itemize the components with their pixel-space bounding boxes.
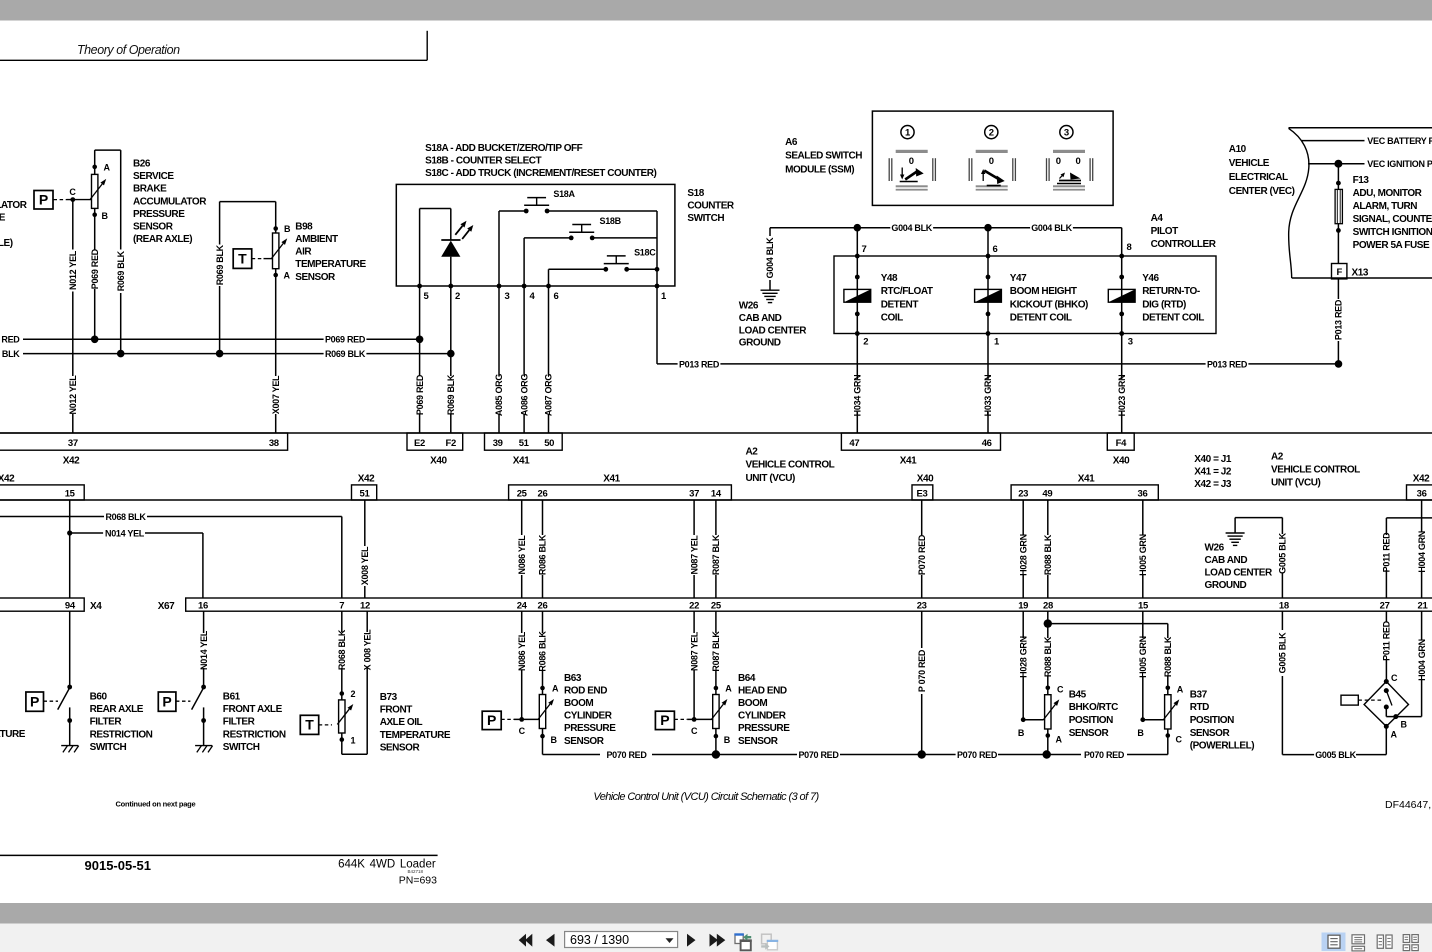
svg-text:N086 YEL: N086 YEL: [517, 631, 527, 671]
svg-text:R069 BLK: R069 BLK: [215, 244, 225, 285]
svg-text:9 BLK: 9 BLK: [0, 349, 20, 359]
svg-text:GROUND: GROUND: [739, 338, 781, 349]
svg-text:T: T: [305, 717, 314, 733]
svg-text:S18B: S18B: [600, 216, 622, 226]
svg-text:27: 27: [1380, 600, 1390, 611]
svg-text:SEALED SWITCH: SEALED SWITCH: [785, 151, 862, 162]
svg-text:S18A - ADD BUCKET/ZERO/TIP OFF: S18A - ADD BUCKET/ZERO/TIP OFF: [425, 143, 583, 154]
svg-text:19: 19: [1018, 600, 1028, 611]
svg-text:N087 YEL: N087 YEL: [689, 631, 699, 671]
svg-text:A2: A2: [1271, 452, 1284, 463]
svg-text:X41: X41: [900, 456, 917, 467]
svg-text:R069 BLK: R069 BLK: [446, 374, 456, 415]
svg-text:H005 GRN: H005 GRN: [1138, 534, 1148, 576]
svg-text:36: 36: [1417, 488, 1427, 499]
svg-text:DF44647,: DF44647,: [1385, 799, 1431, 811]
svg-text:RESTRICTION: RESTRICTION: [223, 729, 286, 740]
svg-text:CONTROLLER: CONTROLLER: [1151, 239, 1217, 250]
svg-text:F2: F2: [446, 438, 457, 449]
svg-text:15: 15: [65, 488, 76, 499]
svg-text:B63: B63: [564, 673, 582, 684]
svg-text:TEMPERATURE: TEMPERATURE: [295, 259, 366, 270]
svg-text:B: B: [551, 735, 558, 745]
svg-text:S18: S18: [687, 188, 704, 199]
svg-text:S18B - COUNTER SELECT: S18B - COUNTER SELECT: [425, 155, 541, 166]
svg-text:DETENT: DETENT: [881, 299, 919, 310]
svg-text:(REAR AXLE): (REAR AXLE): [133, 234, 192, 245]
svg-text:SWITCH: SWITCH: [687, 213, 724, 224]
svg-text:A2: A2: [746, 447, 759, 458]
svg-text:F: F: [1336, 267, 1342, 278]
svg-text:P070 RED: P070 RED: [606, 750, 647, 760]
svg-text:H004 GRN: H004 GRN: [1417, 639, 1427, 681]
svg-text:23: 23: [917, 600, 927, 611]
svg-text:AXLE OIL: AXLE OIL: [380, 717, 423, 728]
svg-text:SENSOR: SENSOR: [738, 736, 779, 747]
svg-text:B42718: B42718: [407, 869, 423, 874]
svg-text:B: B: [724, 735, 731, 745]
svg-text:0: 0: [909, 156, 914, 167]
svg-text:ACCUMULATOR: ACCUMULATOR: [133, 196, 207, 207]
svg-text:Vehicle Control Unit (VCU) Cir: Vehicle Control Unit (VCU) Circuit Schem…: [593, 791, 819, 803]
svg-text:FILTER: FILTER: [223, 717, 256, 728]
svg-text:PN=693: PN=693: [399, 875, 437, 887]
svg-text:N014 YEL: N014 YEL: [105, 528, 145, 538]
svg-text:16: 16: [198, 600, 208, 611]
svg-text:B64: B64: [738, 673, 756, 684]
svg-text:RTC/FLOAT: RTC/FLOAT: [881, 286, 933, 297]
svg-text:6: 6: [993, 244, 998, 255]
svg-text:X40 = J1: X40 = J1: [1194, 454, 1232, 465]
svg-text:CENTER (VEC): CENTER (VEC): [1229, 186, 1295, 197]
svg-text:P 070 RED: P 070 RED: [917, 649, 927, 692]
svg-text:P069 RED: P069 RED: [325, 335, 366, 345]
svg-text:A087 ORG: A087 ORG: [544, 374, 554, 416]
svg-text:A: A: [1391, 730, 1398, 740]
svg-text:BOOM: BOOM: [564, 698, 593, 709]
svg-text:X4: X4: [90, 601, 102, 612]
svg-text:2: 2: [989, 128, 994, 139]
svg-text:SENSOR: SENSOR: [1190, 728, 1231, 739]
svg-text:R068 BLK: R068 BLK: [337, 629, 347, 670]
svg-text:F13: F13: [1353, 175, 1370, 186]
svg-text:X41: X41: [603, 474, 620, 485]
svg-text:X41 = J2: X41 = J2: [1194, 467, 1232, 478]
svg-text:H033 GRN: H033 GRN: [983, 375, 993, 417]
svg-text:X42: X42: [63, 456, 80, 467]
svg-text:BOOM: BOOM: [738, 698, 767, 709]
svg-text:15: 15: [1138, 600, 1149, 611]
svg-text:C: C: [691, 726, 698, 736]
svg-text:36: 36: [1138, 488, 1148, 499]
svg-text:Theory of Operation: Theory of Operation: [77, 43, 180, 57]
svg-text:A6: A6: [785, 137, 798, 148]
svg-text:(REAR AXLE): (REAR AXLE): [0, 238, 13, 249]
svg-text:POWER 5A FUSE: POWER 5A FUSE: [1353, 240, 1430, 251]
svg-text:P013 RED: P013 RED: [1207, 359, 1248, 369]
svg-text:VEHICLE CONTROL: VEHICLE CONTROL: [746, 460, 835, 471]
svg-text:49: 49: [1042, 488, 1052, 499]
svg-text:H034 GRN: H034 GRN: [853, 375, 863, 417]
svg-text:B45: B45: [1069, 689, 1087, 700]
svg-text:B: B: [102, 211, 109, 221]
svg-text:X40: X40: [917, 474, 934, 485]
svg-text:VEHICLE CONTROL: VEHICLE CONTROL: [1271, 465, 1360, 476]
svg-text:N086 YEL: N086 YEL: [517, 535, 527, 575]
svg-text:C: C: [1391, 673, 1398, 683]
svg-text:TEMPERATURE: TEMPERATURE: [0, 729, 26, 740]
svg-text:P069 RED: P069 RED: [415, 374, 425, 415]
svg-text:1: 1: [351, 736, 356, 746]
svg-text:47: 47: [849, 438, 859, 449]
svg-text:P011 RED: P011 RED: [1382, 620, 1392, 660]
svg-text:25: 25: [517, 488, 528, 499]
svg-text:21: 21: [1418, 600, 1429, 611]
svg-text:A: A: [552, 684, 559, 694]
svg-text:S18A: S18A: [553, 189, 575, 199]
svg-text:28: 28: [1043, 600, 1053, 611]
svg-text:SWITCH: SWITCH: [90, 742, 127, 753]
svg-text:ELECTRICAL: ELECTRICAL: [1229, 172, 1288, 183]
svg-text:P069 RED: P069 RED: [90, 248, 100, 289]
svg-text:BOOM HEIGHT: BOOM HEIGHT: [1010, 286, 1077, 297]
svg-text:Y46: Y46: [1142, 273, 1159, 284]
svg-text:H005 GRN: H005 GRN: [1138, 636, 1148, 678]
svg-text:37: 37: [689, 488, 699, 499]
svg-text:22: 22: [689, 600, 699, 611]
svg-text:SENSOR: SENSOR: [295, 272, 336, 283]
svg-text:0: 0: [1056, 156, 1061, 167]
svg-text:C: C: [69, 187, 76, 197]
svg-text:R068 BLK: R068 BLK: [105, 512, 146, 522]
svg-text:SERVICE: SERVICE: [133, 171, 174, 182]
svg-text:P070 RED: P070 RED: [917, 534, 927, 575]
svg-text:14: 14: [711, 488, 722, 499]
svg-text:P013 RED: P013 RED: [679, 359, 720, 369]
svg-text:R086 BLK: R086 BLK: [538, 631, 548, 672]
svg-text:51: 51: [360, 488, 371, 499]
svg-text:Y48: Y48: [881, 273, 898, 284]
svg-text:7: 7: [862, 244, 867, 255]
svg-text:X 008 YEL: X 008 YEL: [362, 629, 372, 670]
svg-text:RETURN-TO-: RETURN-TO-: [1142, 286, 1200, 297]
svg-text:FILTER: FILTER: [90, 717, 123, 728]
svg-text:9 RED: 9 RED: [0, 335, 20, 345]
svg-text:N087 YEL: N087 YEL: [689, 535, 699, 575]
svg-text:Y47: Y47: [1010, 273, 1027, 284]
svg-text:T: T: [238, 250, 247, 266]
svg-text:P070 RED: P070 RED: [798, 750, 839, 760]
svg-text:6: 6: [554, 291, 559, 302]
svg-text:G005 BLK: G005 BLK: [1315, 750, 1356, 760]
svg-text:C: C: [519, 726, 526, 736]
svg-text:POSITION: POSITION: [1069, 715, 1113, 726]
svg-text:26: 26: [538, 488, 548, 499]
svg-text:REAR AXLE: REAR AXLE: [90, 704, 144, 715]
svg-text:3: 3: [1064, 128, 1069, 139]
svg-text:P070 RED: P070 RED: [1084, 750, 1125, 760]
svg-text:A: A: [284, 271, 291, 281]
svg-text:R069 BLK: R069 BLK: [116, 250, 126, 291]
svg-text:BHKO/RTC: BHKO/RTC: [1069, 702, 1118, 713]
svg-text:37: 37: [68, 438, 78, 449]
svg-text:46: 46: [982, 438, 992, 449]
svg-text:DETENT COIL: DETENT COIL: [1010, 313, 1072, 324]
svg-text:MODULE (SSM): MODULE (SSM): [785, 165, 854, 176]
svg-text:R088 BLK: R088 BLK: [1163, 636, 1173, 677]
svg-text:12: 12: [360, 600, 370, 611]
svg-text:UNIT (VCU): UNIT (VCU): [746, 473, 796, 484]
svg-text:AMBIENT: AMBIENT: [295, 234, 338, 245]
svg-text:3: 3: [505, 291, 510, 302]
svg-text:(POWERLLEL): (POWERLLEL): [1190, 741, 1255, 752]
svg-text:E3: E3: [916, 488, 927, 499]
svg-text:0: 0: [1076, 156, 1081, 167]
svg-text:CYLINDER: CYLINDER: [564, 711, 613, 722]
svg-text:A10: A10: [1229, 144, 1247, 155]
svg-text:X41: X41: [1078, 474, 1095, 485]
svg-text:C: C: [1057, 685, 1064, 695]
svg-text:Continued on next page: Continued on next page: [116, 800, 196, 809]
svg-text:3: 3: [1128, 337, 1133, 348]
svg-text:B: B: [1018, 728, 1025, 738]
svg-text:P: P: [487, 712, 496, 728]
svg-text:X007 YEL: X007 YEL: [271, 375, 281, 414]
svg-text:X42: X42: [0, 474, 15, 485]
svg-text:18: 18: [1279, 600, 1289, 611]
svg-text:H028 GRN: H028 GRN: [1018, 636, 1028, 678]
svg-text:SWITCH IGNITION: SWITCH IGNITION: [1353, 227, 1432, 238]
svg-text:7: 7: [339, 600, 344, 611]
svg-text:POSITION: POSITION: [1190, 715, 1234, 726]
svg-text:25: 25: [711, 600, 722, 611]
svg-text:26: 26: [538, 600, 548, 611]
svg-text:A085 ORG: A085 ORG: [494, 374, 504, 416]
svg-text:SWITCH: SWITCH: [223, 742, 260, 753]
svg-text:X67: X67: [158, 601, 175, 612]
svg-text:A: A: [1177, 685, 1184, 695]
svg-text:X40: X40: [430, 456, 447, 467]
svg-text:X40: X40: [1113, 456, 1130, 467]
svg-text:CAB AND: CAB AND: [739, 313, 782, 324]
svg-text:S18C - ADD TRUCK (INCREMENT/RE: S18C - ADD TRUCK (INCREMENT/RESET COUNTE…: [425, 168, 656, 179]
svg-text:SENSOR: SENSOR: [380, 742, 421, 753]
svg-text:LOAD CENTER: LOAD CENTER: [739, 325, 808, 336]
svg-text:X42: X42: [1413, 474, 1430, 485]
svg-text:A: A: [104, 162, 111, 172]
svg-text:X42: X42: [358, 474, 375, 485]
svg-text:8: 8: [1127, 242, 1132, 253]
svg-text:N014 YEL: N014 YEL: [199, 630, 209, 670]
svg-text:24: 24: [517, 600, 528, 611]
svg-text:94: 94: [65, 600, 76, 611]
svg-text:39: 39: [493, 438, 503, 449]
svg-text:R088 BLK: R088 BLK: [1043, 534, 1053, 575]
svg-text:B73: B73: [380, 692, 398, 703]
svg-text:PRESSURE: PRESSURE: [738, 723, 790, 734]
svg-text:FRONT AXLE: FRONT AXLE: [223, 704, 283, 715]
svg-text:0: 0: [989, 156, 994, 167]
svg-text:23: 23: [1018, 488, 1028, 499]
svg-text:VEC BATTERY POWER: VEC BATTERY POWER: [1367, 136, 1432, 146]
svg-text:B98: B98: [295, 221, 313, 232]
svg-text:BRAKE: BRAKE: [133, 184, 167, 195]
svg-text:F4: F4: [1116, 438, 1128, 449]
svg-text:ACCUMULATOR: ACCUMULATOR: [0, 200, 28, 211]
svg-text:PRESSURE: PRESSURE: [564, 723, 616, 734]
svg-text:A: A: [725, 684, 732, 694]
svg-text:R088 BLK: R088 BLK: [1043, 636, 1053, 677]
svg-text:X42 = J3: X42 = J3: [1194, 479, 1232, 490]
svg-text:E2: E2: [414, 438, 425, 449]
svg-text:PILOT: PILOT: [1151, 226, 1179, 237]
svg-text:51: 51: [519, 438, 530, 449]
svg-text:B26: B26: [133, 159, 151, 170]
svg-text:ALARM, TURN: ALARM, TURN: [1353, 201, 1418, 212]
svg-text:B61: B61: [223, 692, 241, 703]
svg-text:FRONT: FRONT: [380, 705, 413, 716]
svg-text:38: 38: [269, 438, 279, 449]
svg-text:UNIT (VCU): UNIT (VCU): [1271, 478, 1321, 489]
svg-text:PRESSURE: PRESSURE: [133, 209, 185, 220]
svg-text:N012 YEL: N012 YEL: [68, 375, 78, 415]
svg-text:W26: W26: [739, 301, 759, 312]
svg-text:CAB AND: CAB AND: [1205, 555, 1248, 566]
svg-text:DIG (RTD): DIG (RTD): [1142, 299, 1186, 310]
svg-text:H028 GRN: H028 GRN: [1018, 534, 1028, 576]
svg-text:R069 BLK: R069 BLK: [325, 349, 366, 359]
svg-text:G004 BLK: G004 BLK: [765, 237, 775, 278]
svg-text:X13: X13: [1352, 268, 1369, 279]
svg-text:B: B: [284, 224, 291, 234]
svg-text:A4: A4: [1151, 213, 1164, 224]
svg-text:COUNTER: COUNTER: [687, 201, 735, 212]
svg-text:N012 YEL: N012 YEL: [68, 250, 78, 290]
svg-text:CYLINDER: CYLINDER: [738, 711, 787, 722]
svg-text:2: 2: [863, 337, 868, 348]
svg-text:ROD END: ROD END: [564, 685, 607, 696]
svg-text:ADU, MONITOR: ADU, MONITOR: [1353, 188, 1423, 199]
svg-text:2: 2: [351, 689, 356, 699]
svg-text:G005 BLK: G005 BLK: [1278, 632, 1288, 673]
svg-text:TEMPERATURE: TEMPERATURE: [380, 730, 451, 741]
svg-text:B: B: [1137, 728, 1144, 738]
svg-text:SENSOR: SENSOR: [133, 222, 174, 233]
svg-text:693 / 1390: 693 / 1390: [570, 933, 629, 947]
svg-text:RTD: RTD: [1190, 702, 1209, 713]
svg-text:X008 YEL: X008 YEL: [360, 546, 370, 585]
svg-text:G004 BLK: G004 BLK: [1031, 223, 1072, 233]
svg-text:W26: W26: [1205, 542, 1225, 553]
svg-text:B60: B60: [90, 692, 108, 703]
svg-text:A086 ORG: A086 ORG: [519, 374, 529, 416]
svg-text:S18C: S18C: [634, 247, 656, 257]
svg-text:SIGNAL, COUNTER: SIGNAL, COUNTER: [1353, 214, 1432, 225]
svg-text:H023 GRN: H023 GRN: [1117, 375, 1127, 417]
svg-text:H004 GRN: H004 GRN: [1417, 531, 1427, 573]
svg-text:GROUND: GROUND: [1205, 580, 1247, 591]
svg-text:HEAD END: HEAD END: [738, 685, 787, 696]
svg-text:X41: X41: [513, 456, 530, 467]
svg-text:R086 BLK: R086 BLK: [538, 534, 548, 575]
svg-text:P070 RED: P070 RED: [957, 750, 998, 760]
svg-text:A: A: [1056, 735, 1063, 745]
svg-text:P011 RED: P011 RED: [1382, 532, 1392, 572]
svg-text:P: P: [39, 192, 48, 208]
svg-text:VEHICLE: VEHICLE: [1229, 158, 1270, 169]
svg-text:50: 50: [544, 438, 554, 449]
svg-text:P: P: [162, 693, 171, 709]
svg-text:B: B: [1401, 720, 1408, 730]
svg-text:B37: B37: [1190, 689, 1208, 700]
svg-text:VEC IGNITION POWER: VEC IGNITION POWER: [1367, 159, 1432, 169]
svg-text:AIR: AIR: [295, 247, 312, 258]
svg-text:R087 BLK: R087 BLK: [711, 534, 721, 575]
svg-text:SENSOR: SENSOR: [564, 736, 605, 747]
svg-text:PRESSURE: PRESSURE: [0, 213, 6, 224]
svg-text:DETENT COIL: DETENT COIL: [1142, 313, 1204, 324]
svg-text:RESTRICTION: RESTRICTION: [90, 729, 153, 740]
svg-text:9015-05-51: 9015-05-51: [85, 858, 152, 873]
svg-text:KICKOUT (BHKO): KICKOUT (BHKO): [1010, 299, 1088, 310]
svg-text:COIL: COIL: [881, 313, 903, 324]
svg-text:SENSOR: SENSOR: [1069, 728, 1110, 739]
svg-text:P: P: [30, 693, 39, 709]
svg-text:C: C: [1176, 735, 1183, 745]
svg-text:P: P: [660, 712, 669, 728]
svg-text:LOAD CENTER: LOAD CENTER: [1205, 568, 1274, 579]
svg-text:R087 BLK: R087 BLK: [711, 631, 721, 672]
svg-text:2: 2: [455, 291, 460, 302]
svg-text:G005 BLK: G005 BLK: [1278, 532, 1288, 573]
svg-text:P013 RED: P013 RED: [1334, 299, 1344, 340]
svg-text:G004 BLK: G004 BLK: [891, 223, 932, 233]
